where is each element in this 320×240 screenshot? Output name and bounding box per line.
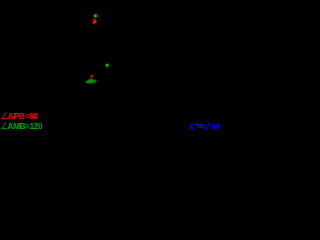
blue author signature, right scribble	[211, 124, 220, 129]
point P (green square, top of circle)	[94, 14, 97, 17]
svg-text:APB=60: APB=60	[8, 111, 39, 121]
label angle APB = 60 (red), angle symbol drawn as path	[2, 111, 39, 121]
blue author signature, letter X	[190, 124, 194, 129]
svg-text:AMB=120: AMB=120	[7, 121, 43, 131]
angle marker sector at M (green 120-degree sector)	[85, 79, 98, 84]
point B (green square, right side of circle)	[106, 64, 109, 67]
blue author signature, middle scribble	[196, 123, 205, 129]
blue author signature, slash	[206, 123, 210, 130]
label angle AMB = 120 (green), angle symbol drawn as path	[1, 121, 43, 131]
angle marker wedge at P (red 60-degree sector)	[92, 18, 97, 24]
point M (red dot)	[90, 75, 93, 78]
